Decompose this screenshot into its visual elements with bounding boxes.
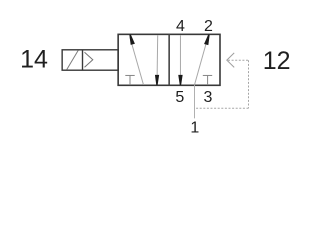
- svg-text:1: 1: [190, 119, 199, 136]
- left square flow path 2 to 3: [156, 35, 159, 85]
- valve position divider: [168, 34, 170, 85]
- pilot actuator triangle: [85, 52, 93, 67]
- right square flow path 4 to 5: [179, 35, 181, 85]
- pilot arrowhead 12: [227, 53, 234, 68]
- pilot actuator 14 box: [62, 50, 118, 70]
- right square flow path 1 to 2: [195, 35, 209, 85]
- left square blocked port 5: [125, 75, 134, 85]
- svg-text:3: 3: [203, 89, 212, 106]
- pilot actuator diagonal: [67, 50, 78, 69]
- valve body: [118, 34, 220, 85]
- svg-text:12: 12: [263, 47, 291, 75]
- pilot wire dashed from arrow to corner: [194, 60, 248, 108]
- right square blocked port 3: [203, 75, 212, 85]
- svg-text:5: 5: [175, 89, 184, 106]
- svg-text:14: 14: [20, 46, 48, 74]
- svg-text:2: 2: [204, 18, 213, 35]
- svg-text:4: 4: [176, 18, 185, 35]
- wire port 1: [194, 85, 196, 118]
- left square flow path 1 to 4: [130, 37, 144, 85]
